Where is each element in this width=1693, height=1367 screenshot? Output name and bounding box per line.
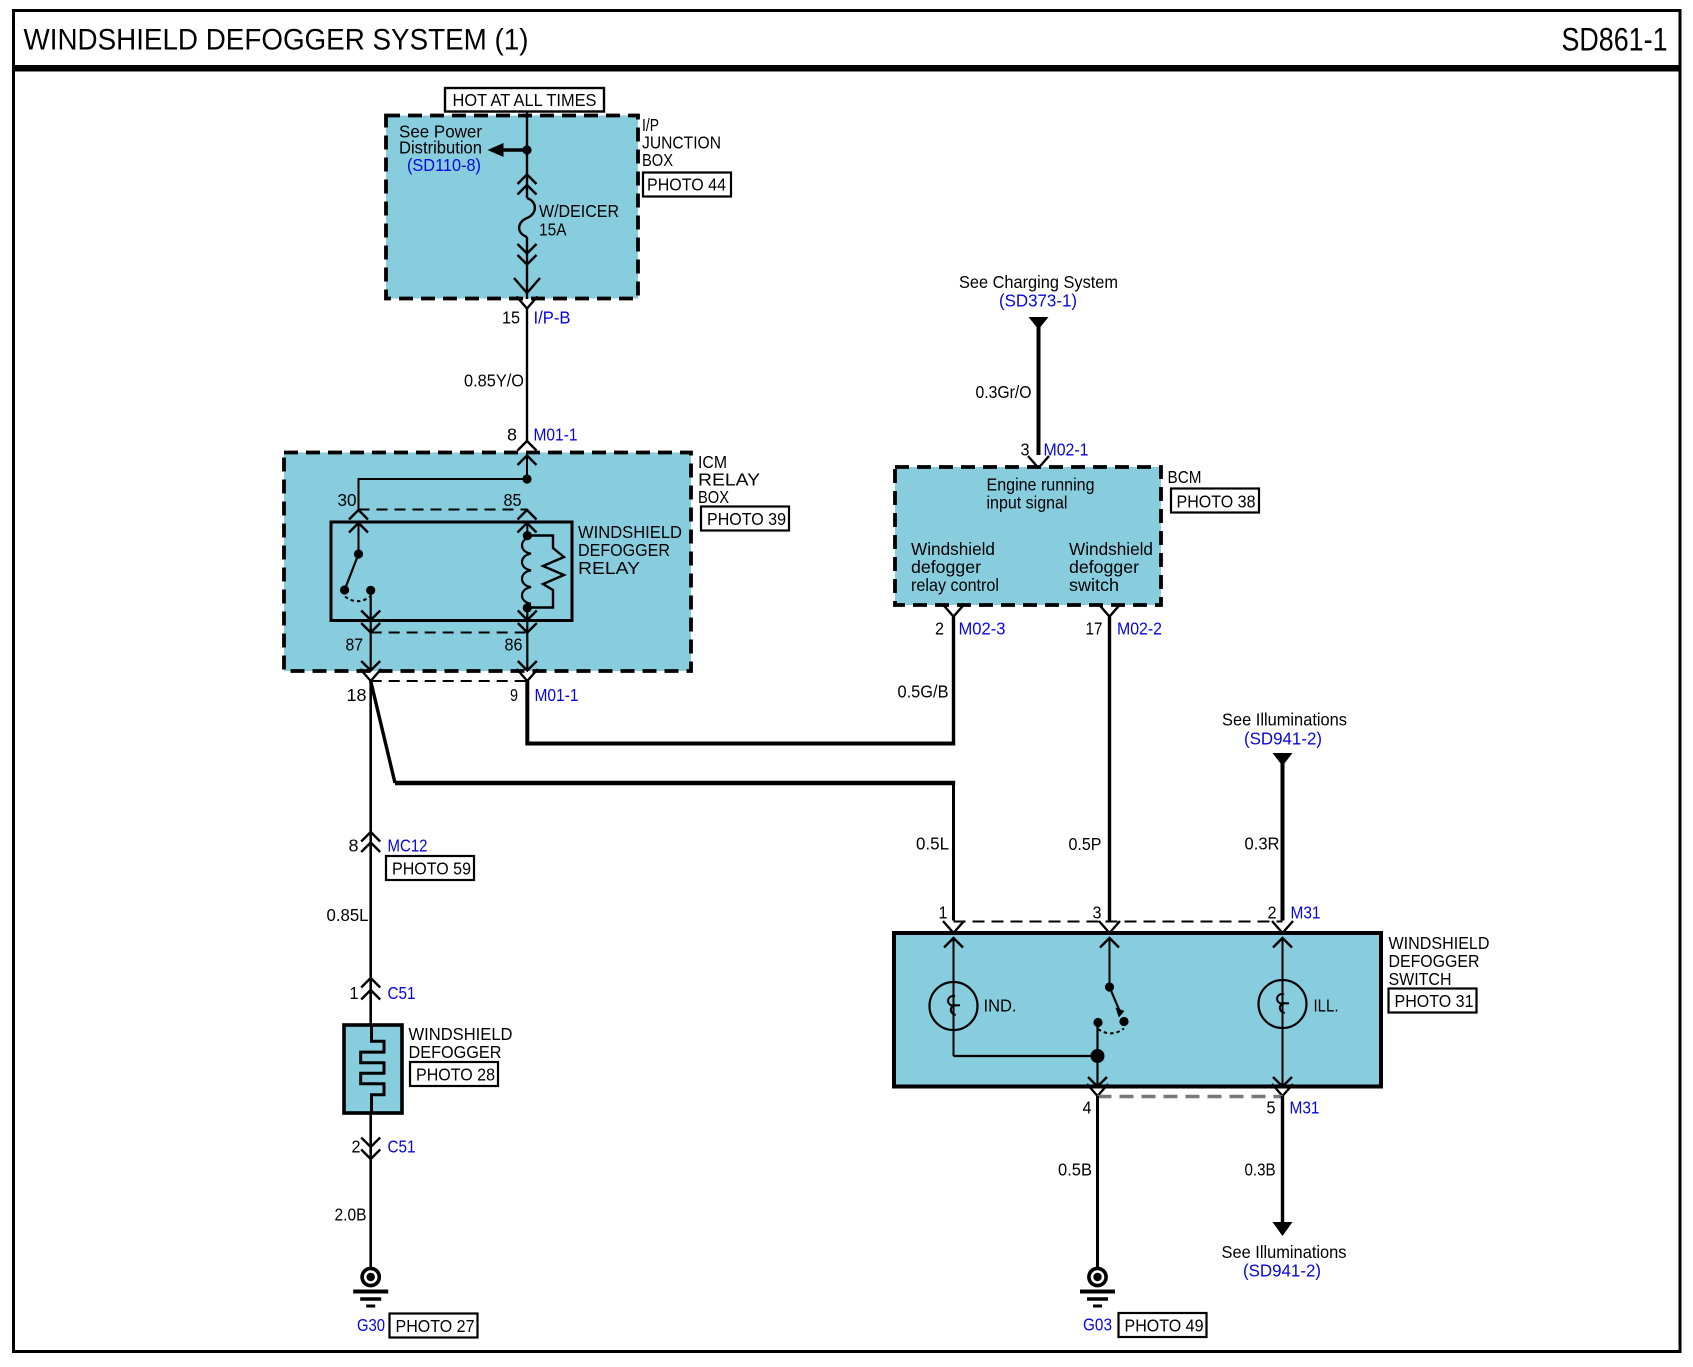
svg-text:M02-1: M02-1	[1044, 440, 1089, 460]
svg-text:87: 87	[346, 635, 364, 655]
svg-text:9: 9	[510, 685, 518, 705]
svg-text:M02-3: M02-3	[959, 619, 1006, 639]
svg-text:PHOTO 38: PHOTO 38	[1177, 492, 1256, 512]
svg-text:See Illuminations: See Illuminations	[1222, 1242, 1347, 1262]
svg-text:0.5P: 0.5P	[1069, 834, 1102, 854]
svg-text:0.85Y/O: 0.85Y/O	[464, 371, 524, 391]
svg-text:2: 2	[935, 619, 944, 639]
svg-text:PHOTO 49: PHOTO 49	[1125, 1316, 1204, 1336]
svg-text:Engine running: Engine running	[987, 475, 1095, 495]
svg-text:15: 15	[502, 308, 520, 328]
svg-text:G03: G03	[1083, 1315, 1112, 1335]
svg-text:3: 3	[1093, 903, 1102, 923]
svg-text:85: 85	[504, 490, 522, 510]
svg-text:0.5G/B: 0.5G/B	[898, 682, 949, 702]
svg-text:I/P-B: I/P-B	[534, 308, 571, 328]
svg-text:0.85L: 0.85L	[327, 905, 369, 925]
svg-text:BOX: BOX	[642, 150, 673, 170]
svg-text:defogger: defogger	[1069, 557, 1139, 577]
svg-text:C51: C51	[388, 1137, 416, 1157]
svg-text:8: 8	[507, 425, 517, 445]
svg-text:SWITCH: SWITCH	[1389, 969, 1452, 989]
svg-text:0.5B: 0.5B	[1058, 1160, 1092, 1180]
svg-text:4: 4	[1083, 1098, 1092, 1118]
svg-text:M01-1: M01-1	[534, 425, 578, 445]
svg-text:PHOTO 59: PHOTO 59	[392, 859, 471, 879]
svg-text:BOX: BOX	[698, 487, 729, 507]
svg-text:0.3B: 0.3B	[1245, 1160, 1276, 1180]
svg-text:IND.: IND.	[984, 996, 1017, 1016]
svg-text:DEFOGGER: DEFOGGER	[1389, 951, 1480, 971]
svg-text:switch: switch	[1069, 575, 1119, 595]
svg-text:Windshield: Windshield	[911, 539, 995, 559]
svg-text:1: 1	[939, 903, 948, 923]
svg-text:(SD110-8): (SD110-8)	[407, 155, 481, 175]
svg-text:DEFOGGER: DEFOGGER	[578, 540, 670, 560]
svg-text:(SD941-2): (SD941-2)	[1243, 1261, 1321, 1281]
svg-text:SD861-1: SD861-1	[1562, 22, 1668, 58]
svg-text:C51: C51	[388, 983, 416, 1003]
svg-text:15A: 15A	[539, 220, 567, 240]
svg-text:BCM: BCM	[1168, 467, 1202, 487]
svg-text:2: 2	[1268, 903, 1277, 923]
svg-text:WINDSHIELD: WINDSHIELD	[578, 522, 682, 542]
svg-text:ILL.: ILL.	[1314, 996, 1339, 1016]
svg-text:1: 1	[350, 983, 359, 1003]
svg-text:WINDSHIELD DEFOGGER SYSTEM (1): WINDSHIELD DEFOGGER SYSTEM (1)	[24, 24, 529, 57]
svg-text:0.3Gr/O: 0.3Gr/O	[976, 382, 1032, 402]
svg-text:2: 2	[352, 1137, 361, 1157]
svg-text:PHOTO 44: PHOTO 44	[647, 175, 726, 195]
svg-text:18: 18	[347, 685, 367, 705]
svg-text:86: 86	[505, 635, 523, 655]
svg-text:DEFOGGER: DEFOGGER	[409, 1042, 502, 1062]
svg-text:PHOTO 27: PHOTO 27	[396, 1316, 475, 1336]
svg-text:Windshield: Windshield	[1069, 539, 1153, 559]
svg-text:5: 5	[1267, 1098, 1276, 1118]
svg-text:0.3R: 0.3R	[1245, 834, 1280, 854]
svg-text:WINDSHIELD: WINDSHIELD	[409, 1024, 513, 1044]
svg-text:G30: G30	[357, 1315, 385, 1335]
svg-text:RELAY: RELAY	[578, 558, 640, 578]
svg-text:W/DEICER: W/DEICER	[539, 201, 619, 221]
svg-text:MC12: MC12	[388, 836, 428, 856]
svg-text:(SD941-2): (SD941-2)	[1244, 729, 1322, 749]
svg-text:PHOTO 31: PHOTO 31	[1395, 991, 1474, 1011]
svg-text:defogger: defogger	[911, 557, 981, 577]
svg-text:PHOTO 28: PHOTO 28	[416, 1065, 495, 1085]
svg-text:0.5L: 0.5L	[916, 834, 949, 854]
svg-text:PHOTO 39: PHOTO 39	[707, 509, 786, 529]
svg-text:See Illuminations: See Illuminations	[1222, 710, 1347, 730]
svg-text:M31: M31	[1291, 903, 1321, 923]
svg-text:HOT AT ALL TIMES: HOT AT ALL TIMES	[453, 90, 597, 110]
svg-text:M31: M31	[1290, 1098, 1320, 1118]
svg-text:(SD373-1): (SD373-1)	[999, 291, 1077, 311]
svg-text:WINDSHIELD: WINDSHIELD	[1389, 933, 1490, 953]
svg-text:8: 8	[349, 836, 359, 856]
svg-text:input signal: input signal	[987, 493, 1068, 513]
svg-text:17: 17	[1086, 619, 1103, 639]
svg-text:M01-1: M01-1	[535, 685, 579, 705]
svg-text:2.0B: 2.0B	[335, 1205, 367, 1225]
svg-text:relay control: relay control	[911, 575, 999, 595]
svg-text:See Charging System: See Charging System	[959, 272, 1118, 292]
svg-text:M02-2: M02-2	[1117, 619, 1162, 639]
svg-text:30: 30	[338, 490, 357, 510]
